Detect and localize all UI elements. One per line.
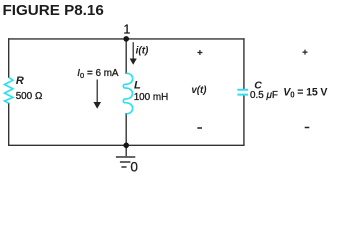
wire: top rail bbox=[9, 38, 244, 40]
svg-text:R: R bbox=[16, 75, 24, 87]
source current arrow I0 bbox=[93, 80, 101, 109]
wire: ground stub bbox=[125, 145, 127, 155]
wire: left edge upper segment bbox=[8, 39, 10, 77]
ground symbol bbox=[116, 157, 135, 167]
wire: right edge lower segment bbox=[243, 95, 245, 145]
svg-text:100 mH: 100 mH bbox=[134, 92, 169, 103]
svg-text:FIGURE P8.16: FIGURE P8.16 bbox=[3, 2, 104, 19]
wire: right edge upper segment bbox=[243, 39, 245, 89]
svg-text:i(t): i(t) bbox=[136, 45, 149, 56]
wire: left edge lower segment bbox=[8, 103, 10, 145]
wire: middle branch upper segment bbox=[125, 39, 127, 73]
wire: middle branch lower segment bbox=[125, 114, 127, 146]
inductor L (cyan coil) bbox=[123, 73, 132, 113]
svg-text:500 Ω: 500 Ω bbox=[16, 91, 43, 102]
resistor R (cyan zigzag) bbox=[5, 77, 13, 103]
wire: bottom rail bbox=[9, 144, 244, 146]
node 0 junction dot bbox=[123, 143, 129, 149]
node 1 junction dot bbox=[123, 36, 129, 42]
svg-text:V0 = 15 V: V0 = 15 V bbox=[283, 87, 327, 100]
capacitor C plates (cyan) bbox=[237, 90, 248, 95]
polarity plus (inner, v(t)) bbox=[197, 50, 202, 55]
svg-text:0: 0 bbox=[130, 160, 138, 175]
svg-text:L: L bbox=[134, 79, 141, 91]
svg-text:0.5 μF: 0.5 μF bbox=[250, 90, 278, 101]
polarity minus (inner, v(t)) bbox=[197, 127, 202, 129]
svg-text:I0 = 6 mA: I0 = 6 mA bbox=[77, 68, 119, 80]
svg-text:1: 1 bbox=[123, 23, 130, 37]
current arrow i(t) bbox=[130, 42, 137, 65]
svg-text:v(t): v(t) bbox=[191, 85, 206, 96]
polarity minus (outer, V0) bbox=[305, 127, 310, 129]
polarity plus (outer, V0) bbox=[303, 50, 308, 55]
